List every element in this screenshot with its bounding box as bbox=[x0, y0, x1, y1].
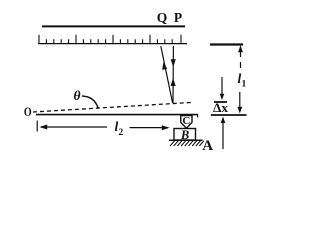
incident ray arrowhead (down) bbox=[171, 59, 176, 67]
svg-text:Δx: Δx bbox=[213, 101, 229, 115]
delta-x upper level line bbox=[214, 101, 227, 103]
svg-text:P: P bbox=[174, 10, 182, 25]
svg-text:1: 1 bbox=[242, 80, 247, 90]
lower level line (mirror level extended) bbox=[211, 114, 247, 116]
lever horizontal line bbox=[36, 114, 198, 116]
angle arc bbox=[82, 96, 98, 108]
delta-x up arrow bbox=[222, 122, 224, 149]
incident ray from P down to mirror bbox=[172, 46, 174, 103]
dimension l2 left segment with left arrowhead bbox=[41, 126, 107, 128]
svg-text:C: C bbox=[182, 115, 190, 127]
dimension l1 lower arrow (down) bbox=[239, 92, 241, 107]
reflected ray from mirror up to Q bbox=[161, 46, 173, 103]
mirror clamp C bbox=[181, 116, 192, 129]
ground line bbox=[169, 139, 203, 141]
tilted lever dashed line bbox=[33, 102, 194, 112]
l2 left extension tick bbox=[36, 121, 38, 132]
dimension l2 right segment with right arrowhead bbox=[130, 127, 169, 129]
ground hatching bbox=[170, 141, 204, 146]
scale baseline bbox=[38, 43, 187, 45]
svg-text:A: A bbox=[202, 138, 213, 154]
delta-x down arrow bbox=[221, 77, 223, 95]
mirror scale top edge bbox=[42, 25, 185, 27]
dimension l1 upper arrow (up) bbox=[240, 47, 242, 68]
reflected ray arrowhead (up, on vertical ray) bbox=[171, 78, 176, 86]
reflected ray arrowhead (up-left) bbox=[162, 63, 167, 70]
lever end tick bbox=[197, 114, 199, 118]
support block B bbox=[174, 129, 196, 141]
svg-text:O: O bbox=[24, 105, 32, 119]
scale tick marks bbox=[39, 35, 181, 44]
l1 reference line at scale level bbox=[210, 43, 243, 45]
svg-text:θ: θ bbox=[74, 88, 81, 103]
svg-text:2: 2 bbox=[119, 128, 124, 138]
svg-text:Q: Q bbox=[157, 10, 168, 25]
